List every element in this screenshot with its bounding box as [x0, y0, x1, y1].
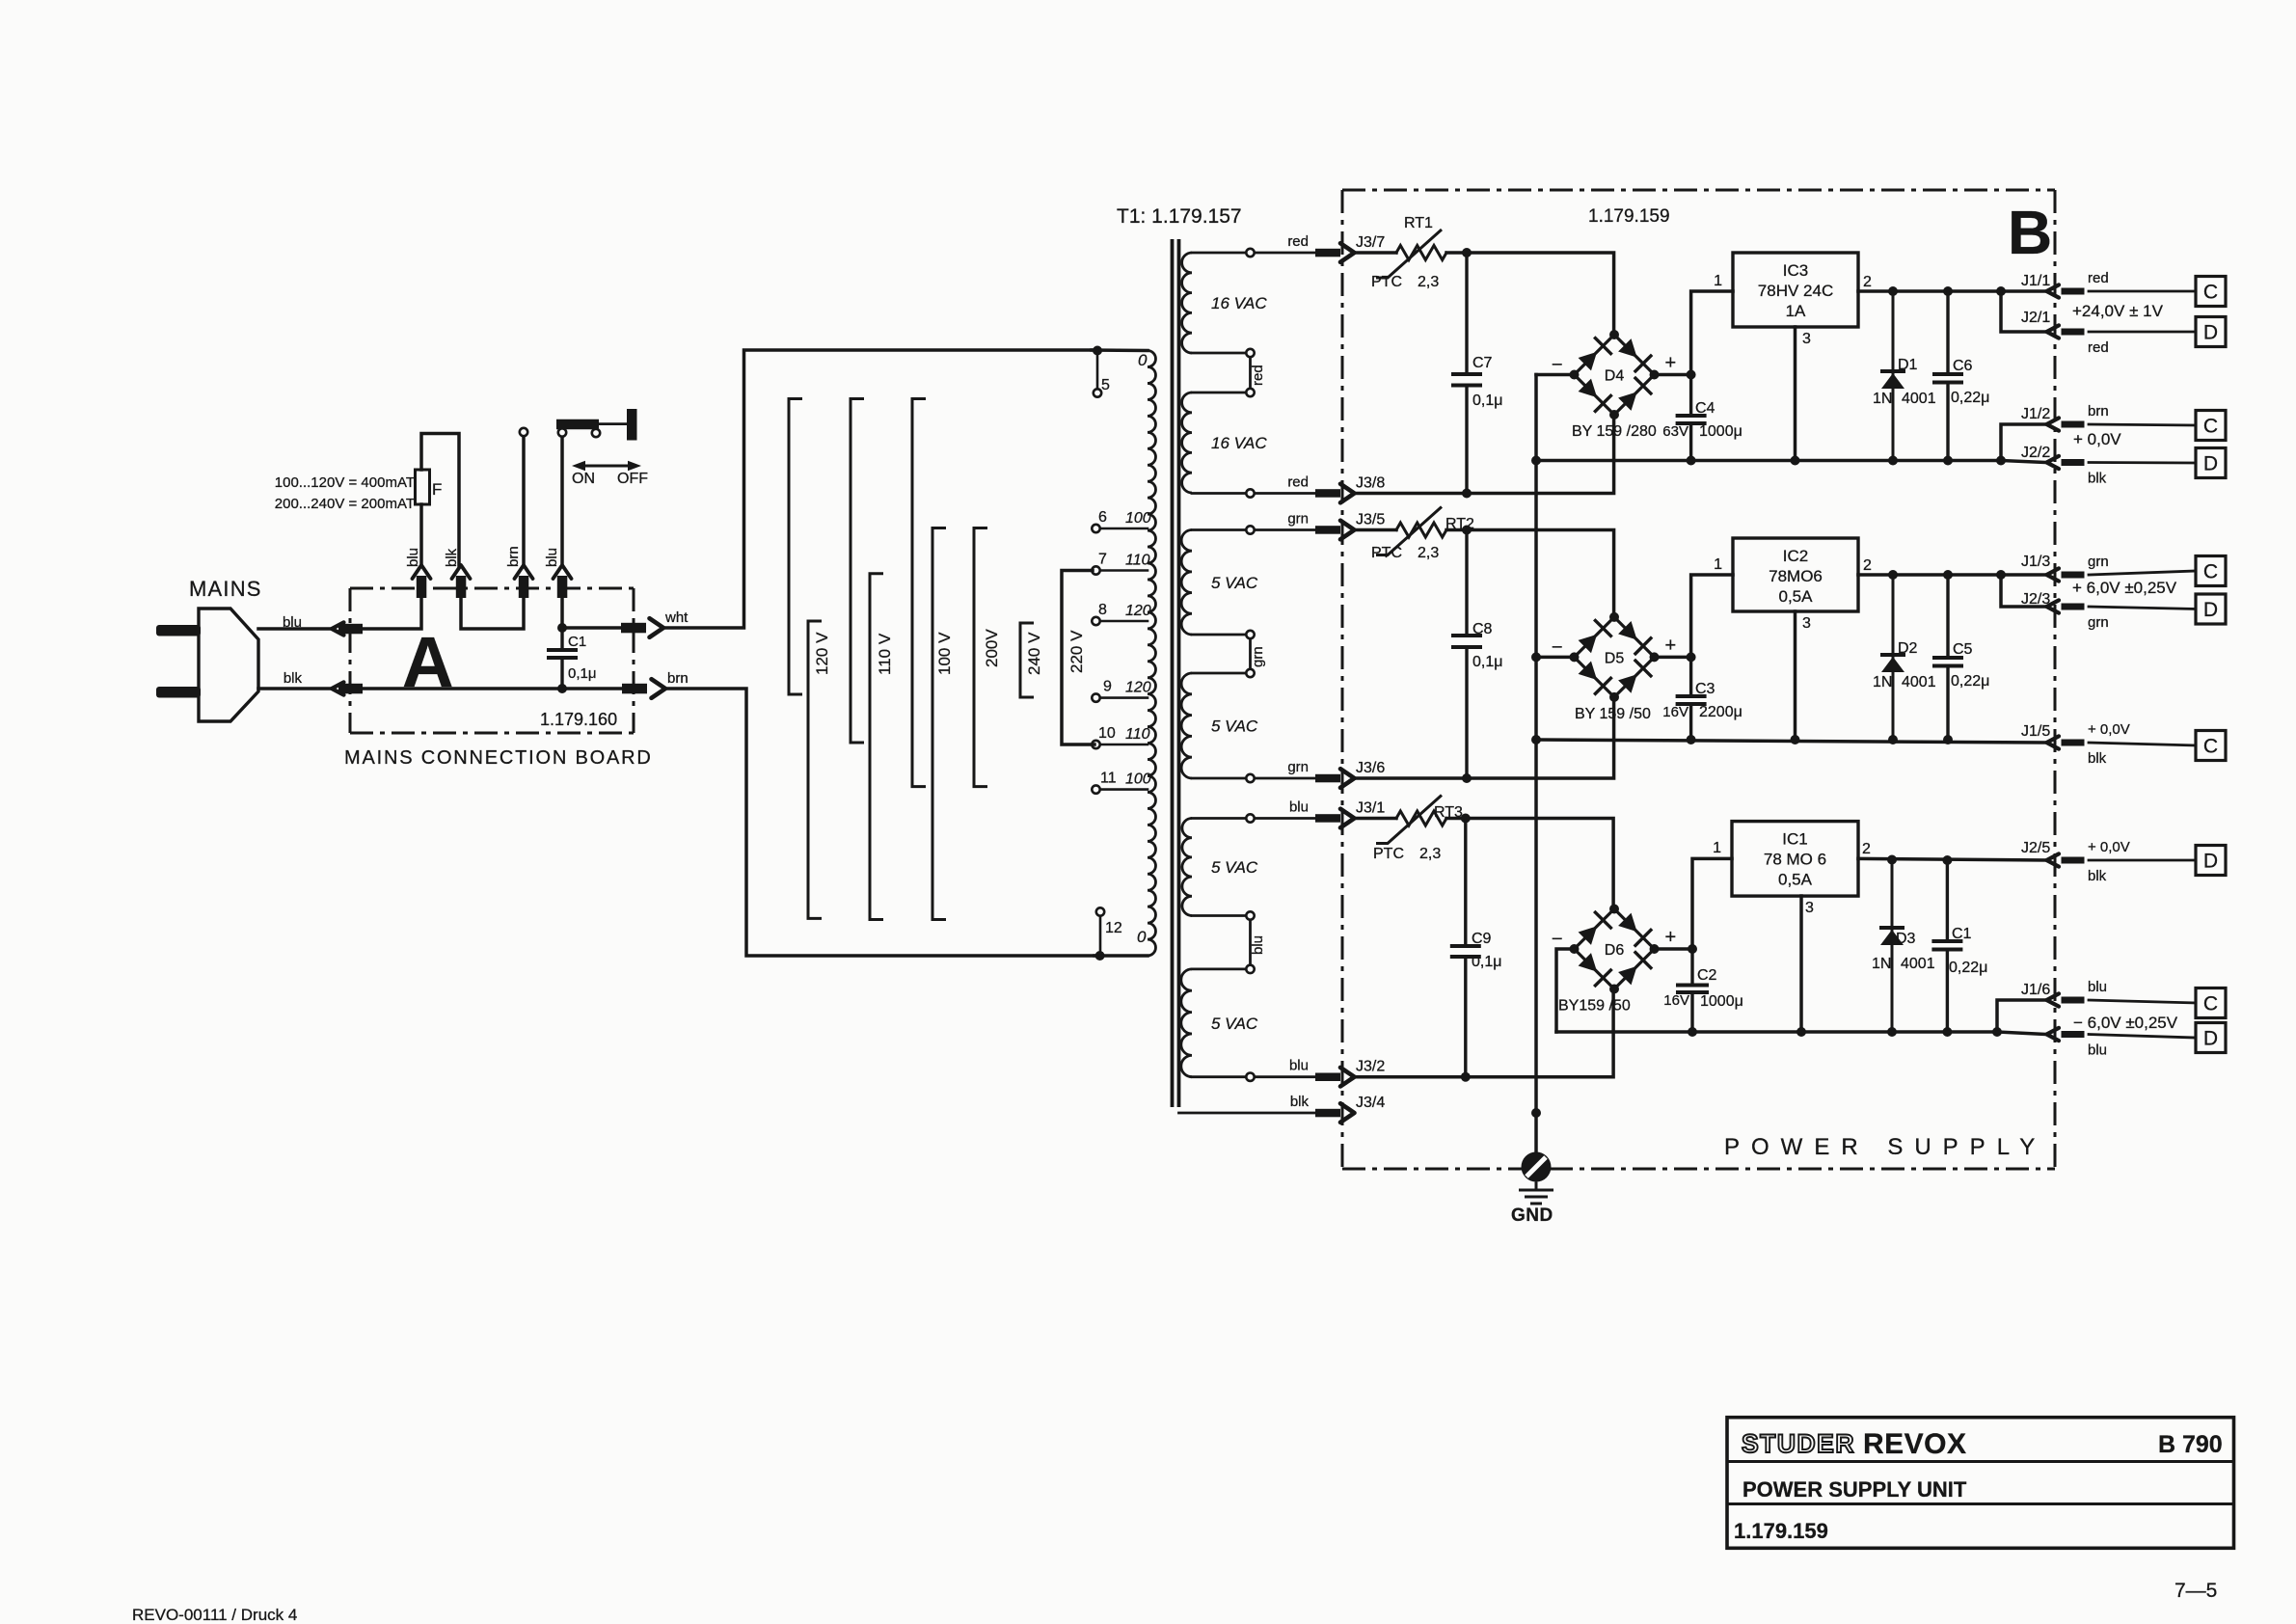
connector fork blu [413, 565, 431, 579]
junction C3/IC2 in [1687, 652, 1696, 662]
wire D6 plus [1655, 947, 1693, 951]
junction C2 to rail [1688, 1027, 1697, 1037]
svg-text:grn: grn [1250, 646, 1266, 667]
thermistor RT3 [1396, 811, 1446, 826]
svg-text:1000μ: 1000μ [1699, 423, 1742, 440]
svg-text:D: D [2203, 322, 2218, 344]
tap 6 lead [1100, 528, 1148, 530]
connector pin blu [338, 624, 363, 635]
switch contact bar [627, 409, 637, 441]
wire blk pin to brn pin [461, 598, 524, 629]
svg-text:63V: 63V [1662, 423, 1688, 440]
svg-text:0: 0 [1137, 928, 1147, 946]
wire [1092, 348, 1148, 352]
svg-text:D2: D2 [1898, 640, 1918, 657]
svg-text:78MO6: 78MO6 [1769, 567, 1823, 585]
winding lead [1192, 634, 1246, 636]
bracket 110V upper [851, 399, 864, 744]
terminal [1246, 965, 1254, 973]
svg-text:1000μ: 1000μ [1700, 993, 1743, 1010]
capacitor C1 0,22u [1946, 860, 1949, 1032]
wire to J2/1 [2001, 291, 2047, 332]
svg-text:− 6,0V ±0,25V: − 6,0V ±0,25V [2073, 1014, 2178, 1032]
svg-text:IC1: IC1 [1782, 830, 1807, 849]
svg-text:12: 12 [1105, 920, 1122, 936]
terminal 9 [1092, 693, 1099, 701]
svg-text:REVO-00111 / Druck 4: REVO-00111 / Druck 4 [132, 1606, 297, 1624]
svg-text:C1: C1 [568, 634, 586, 650]
board B outline (dash-dot) [1342, 189, 2055, 192]
svg-text:+ 0,0V: + 0,0V [2088, 721, 2130, 738]
svg-text:grn: grn [1287, 511, 1309, 528]
wire IC3 out +24V [1858, 289, 2047, 293]
thermistor RT2 [1396, 523, 1446, 537]
terminal [1246, 631, 1254, 638]
svg-text:PTC: PTC [1371, 545, 1402, 561]
svg-text:+ 0,0V: + 0,0V [2088, 839, 2130, 855]
terminal 5 [1094, 389, 1101, 396]
junction [1887, 1027, 1897, 1037]
terminal 11 [1092, 785, 1099, 793]
svg-text:D4: D4 [1605, 368, 1625, 385]
wire plug blu to board A [258, 627, 332, 631]
svg-text:C: C [2203, 736, 2218, 758]
capacitor C9 0,1u [1464, 819, 1467, 1077]
svg-text:red: red [1287, 233, 1309, 250]
svg-text:POWER SUPPLY: POWER SUPPLY [1724, 1134, 2046, 1160]
svg-text:2: 2 [1863, 557, 1872, 574]
svg-text:100: 100 [1125, 771, 1151, 788]
svg-text:MAINS: MAINS [189, 577, 262, 601]
terminal 8 [1092, 617, 1099, 625]
220V link wire [1062, 571, 1094, 745]
svg-text:7—5: 7—5 [2174, 1580, 2217, 1602]
wire RT1 to D4 AC top [1446, 253, 1614, 334]
connector A brn output [652, 679, 666, 698]
terminal [1246, 349, 1254, 357]
capacitor C8 0,1u [1465, 530, 1468, 779]
connector J2/6 [2047, 1028, 2060, 1041]
svg-text:10: 10 [1098, 725, 1116, 742]
svg-text:grn: grn [2088, 614, 2109, 631]
rail2 0V [1536, 740, 2047, 743]
wire D4 plus [1655, 373, 1691, 377]
svg-text:4001: 4001 [1901, 956, 1935, 972]
svg-text:red: red [1287, 474, 1309, 491]
svg-text:100: 100 [1125, 510, 1151, 527]
terminal 12 stub [1099, 916, 1102, 956]
regulator IC3 [1733, 253, 1858, 327]
junction [1791, 735, 1800, 744]
svg-text:0: 0 [1138, 351, 1148, 369]
terminal [1246, 389, 1254, 396]
svg-text:2,3: 2,3 [1418, 545, 1439, 561]
terminal [1246, 489, 1254, 497]
junction C4 to rail [1687, 456, 1696, 466]
terminal [1246, 1073, 1254, 1081]
winding lead [1192, 392, 1246, 394]
terminal [1246, 911, 1254, 919]
winding lead [1192, 914, 1246, 917]
svg-text:J2/5: J2/5 [2021, 840, 2050, 856]
svg-text:16 VAC: 16 VAC [1211, 294, 1267, 312]
wire IC1 out 0V [1858, 858, 2047, 860]
svg-text:blk: blk [1290, 1094, 1310, 1110]
transformer T1 primary winding [1148, 351, 1155, 957]
svg-text:5 VAC: 5 VAC [1211, 858, 1258, 877]
svg-text:J1/1: J1/1 [2021, 273, 2050, 289]
svg-text:red: red [1250, 365, 1266, 386]
junction C6 [1943, 286, 1953, 296]
svg-text:100 V: 100 V [935, 632, 954, 675]
svg-text:200...240V = 200mAT: 200...240V = 200mAT [275, 496, 415, 512]
connector pin J3/8 [1315, 489, 1340, 498]
svg-text:B 790: B 790 [2158, 1431, 2223, 1458]
wire red [1256, 252, 1315, 255]
thermistor RT1 [1396, 246, 1446, 260]
svg-text:C3: C3 [1695, 681, 1715, 697]
svg-text:78HV 24C: 78HV 24C [1758, 282, 1833, 300]
link wire blu [1249, 920, 1252, 964]
svg-text:240 V: 240 V [1025, 632, 1043, 675]
capacitor C4 1000u 63V [1689, 375, 1692, 461]
connector A blk input [332, 682, 344, 694]
connector J1/3 [2047, 568, 2060, 581]
svg-text:C7: C7 [1472, 355, 1493, 371]
connector J2/5 [2047, 853, 2060, 866]
svg-text:C9: C9 [1472, 931, 1492, 947]
wire grn [1256, 777, 1315, 780]
wire blu [1256, 1075, 1315, 1078]
tap 10 lead [1100, 744, 1148, 746]
tap 7 lead [1100, 569, 1148, 572]
svg-text:blu: blu [405, 548, 421, 567]
secondary winding 5 VAC #5 [1182, 819, 1192, 916]
svg-text:B: B [2008, 198, 2052, 267]
svg-text:−: − [1552, 636, 1563, 658]
connector pin J3/4 [1315, 1109, 1340, 1118]
wire D6 minus to rail3 [1556, 949, 1575, 1032]
connector J3/5 [1340, 521, 1355, 540]
svg-text:J3/4: J3/4 [1356, 1095, 1385, 1111]
svg-text:J2/3: J2/3 [2021, 591, 2050, 608]
svg-text:J1/6: J1/6 [2021, 982, 2050, 998]
diode D3 1N4001 [1891, 860, 1894, 1033]
svg-text:blk: blk [2088, 471, 2107, 487]
wire to J1/6 [1997, 1000, 2047, 1032]
junction [1943, 456, 1953, 466]
svg-text:−: − [1552, 929, 1563, 950]
svg-text:11: 11 [1100, 771, 1117, 787]
junction C7 bottom [1462, 489, 1472, 499]
node primary top tap 0 [1093, 346, 1102, 356]
winding lead [1192, 817, 1246, 820]
transformer core [1173, 239, 1179, 1107]
svg-text:16V: 16V [1663, 992, 1689, 1009]
wire brn to switch pole [522, 436, 526, 565]
plug prong bottom [156, 687, 201, 698]
svg-text:T1: 1.179.157: T1: 1.179.157 [1117, 205, 1242, 228]
power switch blade [556, 420, 599, 430]
connector pin brn [622, 684, 647, 694]
svg-text:PTC: PTC [1373, 846, 1404, 862]
junction D1 [1888, 286, 1898, 296]
svg-text:J1/5: J1/5 [2021, 723, 2050, 740]
connector A blu input [332, 622, 344, 635]
wire RT2 to D5 AC top [1446, 530, 1614, 617]
connector fork brn [515, 565, 533, 579]
link wire red [1249, 358, 1252, 389]
wire J3/7 to RT1 [1355, 251, 1397, 255]
svg-text:+: + [1665, 927, 1677, 948]
svg-text:0,5A: 0,5A [1778, 871, 1813, 889]
svg-text:blu: blu [1289, 1058, 1309, 1074]
svg-text:0,1μ: 0,1μ [1472, 954, 1501, 970]
svg-text:blu: blu [1250, 935, 1266, 955]
winding lead [1192, 252, 1246, 255]
terminal switch pole [520, 428, 527, 436]
svg-text:2,3: 2,3 [1418, 274, 1439, 290]
svg-text:+ 6,0V ±0,25V: + 6,0V ±0,25V [2072, 579, 2177, 597]
svg-text:F: F [432, 480, 442, 499]
winding lead [1192, 492, 1246, 495]
wire D5 minus [1536, 656, 1575, 660]
svg-text:D: D [2203, 1028, 2218, 1050]
svg-text:C8: C8 [1472, 621, 1493, 637]
svg-text:blk: blk [2088, 750, 2107, 767]
svg-text:1: 1 [1714, 273, 1722, 289]
fuse F with loop [419, 504, 423, 565]
svg-text:C5: C5 [1953, 641, 1973, 658]
screen/black wire [1179, 1112, 1315, 1115]
svg-text:blk: blk [284, 670, 303, 687]
regulator IC2 [1733, 538, 1858, 611]
svg-text:D: D [2203, 453, 2218, 475]
svg-text:D: D [2203, 851, 2218, 873]
capacitor C7 0,1u [1465, 253, 1468, 494]
svg-text:J3/1: J3/1 [1356, 800, 1385, 817]
svg-text:78 MO 6: 78 MO 6 [1764, 851, 1826, 869]
svg-text:blu: blu [2088, 979, 2107, 995]
connector pin J3/6 [1315, 774, 1340, 783]
svg-text:BY 159 /280: BY 159 /280 [1572, 423, 1657, 440]
svg-text:blu: blu [2088, 1042, 2107, 1059]
svg-text:C: C [2203, 561, 2218, 583]
svg-text:5 VAC: 5 VAC [1211, 574, 1258, 592]
svg-text:REVOX: REVOX [1863, 1428, 1967, 1460]
bracket 200V [974, 528, 987, 787]
svg-text:110: 110 [1125, 726, 1150, 743]
node primary bottom tap 0 [1095, 951, 1105, 961]
terminal [1246, 249, 1254, 257]
connector J3/7 [1340, 243, 1355, 262]
junction [1943, 735, 1953, 744]
connector pin blk (board A top) [456, 576, 467, 598]
connector J3/6 [1340, 769, 1355, 788]
svg-text:red: red [2088, 270, 2109, 286]
svg-text:200V: 200V [983, 629, 1001, 667]
wire IC2 pin3 to 0V [1794, 611, 1797, 740]
svg-text:D6: D6 [1605, 942, 1625, 959]
svg-text:2: 2 [1862, 841, 1871, 857]
connector pin blu (board A top) [557, 576, 568, 598]
terminal [1246, 774, 1254, 782]
svg-text:0,1μ: 0,1μ [568, 665, 597, 682]
wire plug-blu to fuse pin [363, 598, 421, 629]
wire D5 plus [1655, 656, 1691, 660]
svg-text:5: 5 [1101, 377, 1110, 393]
svg-text:100...120V = 400mAT: 100...120V = 400mAT [275, 474, 415, 491]
terminal [1246, 526, 1254, 533]
svg-text:D5: D5 [1605, 650, 1625, 666]
capacitor C5 0,22u [1946, 575, 1949, 740]
svg-text:8: 8 [1098, 602, 1107, 618]
svg-text:3: 3 [1802, 615, 1811, 632]
svg-text:120: 120 [1125, 680, 1151, 696]
terminal 10 [1092, 741, 1099, 748]
svg-text:+: + [1665, 635, 1677, 656]
svg-text:STUDER: STUDER [1742, 1429, 1855, 1458]
winding lead [1192, 777, 1246, 780]
connector J3/8 [1340, 484, 1355, 503]
connector pin J3/2 [1315, 1073, 1340, 1082]
bridge rectifier D5 [1575, 617, 1655, 697]
connector pin J3/7 [1315, 249, 1340, 257]
svg-text:brn: brn [2088, 403, 2109, 420]
svg-text:0,1μ: 0,1μ [1472, 654, 1502, 670]
junction C1 [1942, 855, 1952, 865]
connector pin J3/1 [1315, 814, 1340, 823]
wire to J2/2 [2001, 461, 2047, 463]
svg-text:2: 2 [1863, 274, 1872, 290]
wire to J1/2 [2001, 424, 2047, 461]
svg-text:1.179.159: 1.179.159 [1734, 1519, 1828, 1543]
rail3 -6V [1556, 1030, 1997, 1034]
terminal 7 [1092, 566, 1099, 574]
svg-text:grn: grn [1287, 759, 1309, 775]
bracket 110V lower [870, 574, 883, 920]
winding lead [1192, 968, 1246, 971]
wire switch-blu pin down [560, 598, 564, 628]
svg-text:16 VAC: 16 VAC [1211, 434, 1267, 452]
junction rail1 0V [1531, 456, 1541, 466]
junction C8 top [1462, 526, 1472, 535]
wire IC1 pin3 to -6V rail [1799, 896, 1803, 1032]
svg-text:RT1: RT1 [1404, 215, 1433, 231]
junction J3/4 blk [1531, 1108, 1541, 1118]
tap 9 lead [1100, 696, 1148, 699]
title block [1727, 1418, 2234, 1549]
svg-text:0,22μ: 0,22μ [1949, 960, 1987, 976]
connector pin brn (board A top) [519, 576, 529, 598]
terminal 6 [1092, 525, 1099, 532]
wire J3/5 to RT2 [1355, 528, 1397, 532]
junction fork J1/3-J2/3 [1996, 570, 2006, 580]
svg-text:110: 110 [1125, 553, 1150, 569]
svg-text:grn: grn [2088, 554, 2109, 570]
svg-text:−: − [1552, 355, 1563, 376]
terminal switch blu [558, 428, 566, 436]
wire J3/8 to D4 AC bottom [1355, 416, 1614, 494]
ON/OFF arrow [579, 465, 635, 468]
capacitor C3 2200u 16V [1689, 657, 1692, 740]
svg-text:J3/5: J3/5 [1356, 512, 1385, 528]
junction D3 [1887, 855, 1897, 865]
svg-text:2,3: 2,3 [1419, 846, 1441, 862]
junction [1942, 1027, 1952, 1037]
junction C9 top [1461, 814, 1471, 824]
svg-text:1: 1 [1714, 556, 1722, 573]
wire IC2 out +6V [1858, 573, 2047, 577]
svg-text:IC2: IC2 [1783, 547, 1808, 565]
wire brn to primary bottom [665, 689, 1094, 956]
wire common 0V vertical [1534, 375, 1538, 1152]
junction fork J1/6 [1992, 1027, 2002, 1037]
capacitor C1 (board A) 0,1u [560, 628, 563, 689]
svg-text:wht: wht [664, 609, 689, 626]
svg-text:D3: D3 [1896, 931, 1916, 947]
svg-text:C: C [2203, 282, 2218, 304]
terminal [1246, 669, 1254, 677]
junction C4/IC3 in [1687, 370, 1696, 380]
bracket 100V upper [912, 399, 926, 787]
svg-text:MAINS CONNECTION BOARD: MAINS CONNECTION BOARD [344, 747, 653, 769]
ground screw terminal [1522, 1152, 1552, 1182]
wire J3/1 to RT3 [1355, 817, 1397, 821]
svg-text:5 VAC: 5 VAC [1211, 1015, 1258, 1033]
svg-text:brn: brn [667, 670, 689, 687]
svg-text:120: 120 [1125, 603, 1151, 619]
connector J1/6 [2047, 993, 2060, 1006]
terminal [1246, 814, 1254, 822]
secondary winding 5 VAC #3 [1181, 530, 1192, 636]
bottom rail board A [363, 687, 623, 690]
secondary winding 16 VAC #1 [1182, 253, 1192, 353]
svg-text:OFF: OFF [617, 471, 648, 487]
connector pin wht [621, 623, 646, 634]
svg-text:C: C [2203, 416, 2218, 438]
connector J3/4 [1340, 1103, 1355, 1123]
wire red [1256, 492, 1315, 495]
svg-text:BY159 /50: BY159 /50 [1558, 998, 1631, 1015]
tap 11 lead [1100, 788, 1148, 791]
connector J1/5 [2047, 736, 2060, 748]
connector pin blu (board A top) [417, 576, 427, 598]
svg-text:1: 1 [1713, 840, 1721, 856]
junction C9 bottom [1461, 1072, 1471, 1082]
junction C5 [1943, 570, 1953, 580]
bridge rectifier D6 [1575, 909, 1655, 989]
svg-text:7: 7 [1098, 552, 1107, 568]
terminal 5 stub [1096, 351, 1099, 390]
svg-text:A: A [402, 622, 453, 702]
wire [1094, 954, 1148, 958]
connector pin J3/5 [1315, 526, 1340, 534]
link wire grn [1249, 639, 1252, 669]
svg-text:1N: 1N [1873, 391, 1892, 407]
svg-text:J3/8: J3/8 [1356, 475, 1385, 492]
svg-text:D: D [2203, 599, 2218, 621]
regulator IC1 [1732, 822, 1858, 897]
connector A wht output [650, 618, 664, 637]
node C1 bottom [557, 684, 567, 693]
svg-text:2200μ: 2200μ [1699, 704, 1742, 720]
junction C8 bottom [1462, 773, 1472, 783]
junction J1/J2 fork rail1 [1996, 286, 2006, 296]
bracket 100V lower [932, 528, 946, 920]
wire D4 minus [1536, 373, 1575, 377]
svg-text:C: C [2203, 993, 2218, 1015]
